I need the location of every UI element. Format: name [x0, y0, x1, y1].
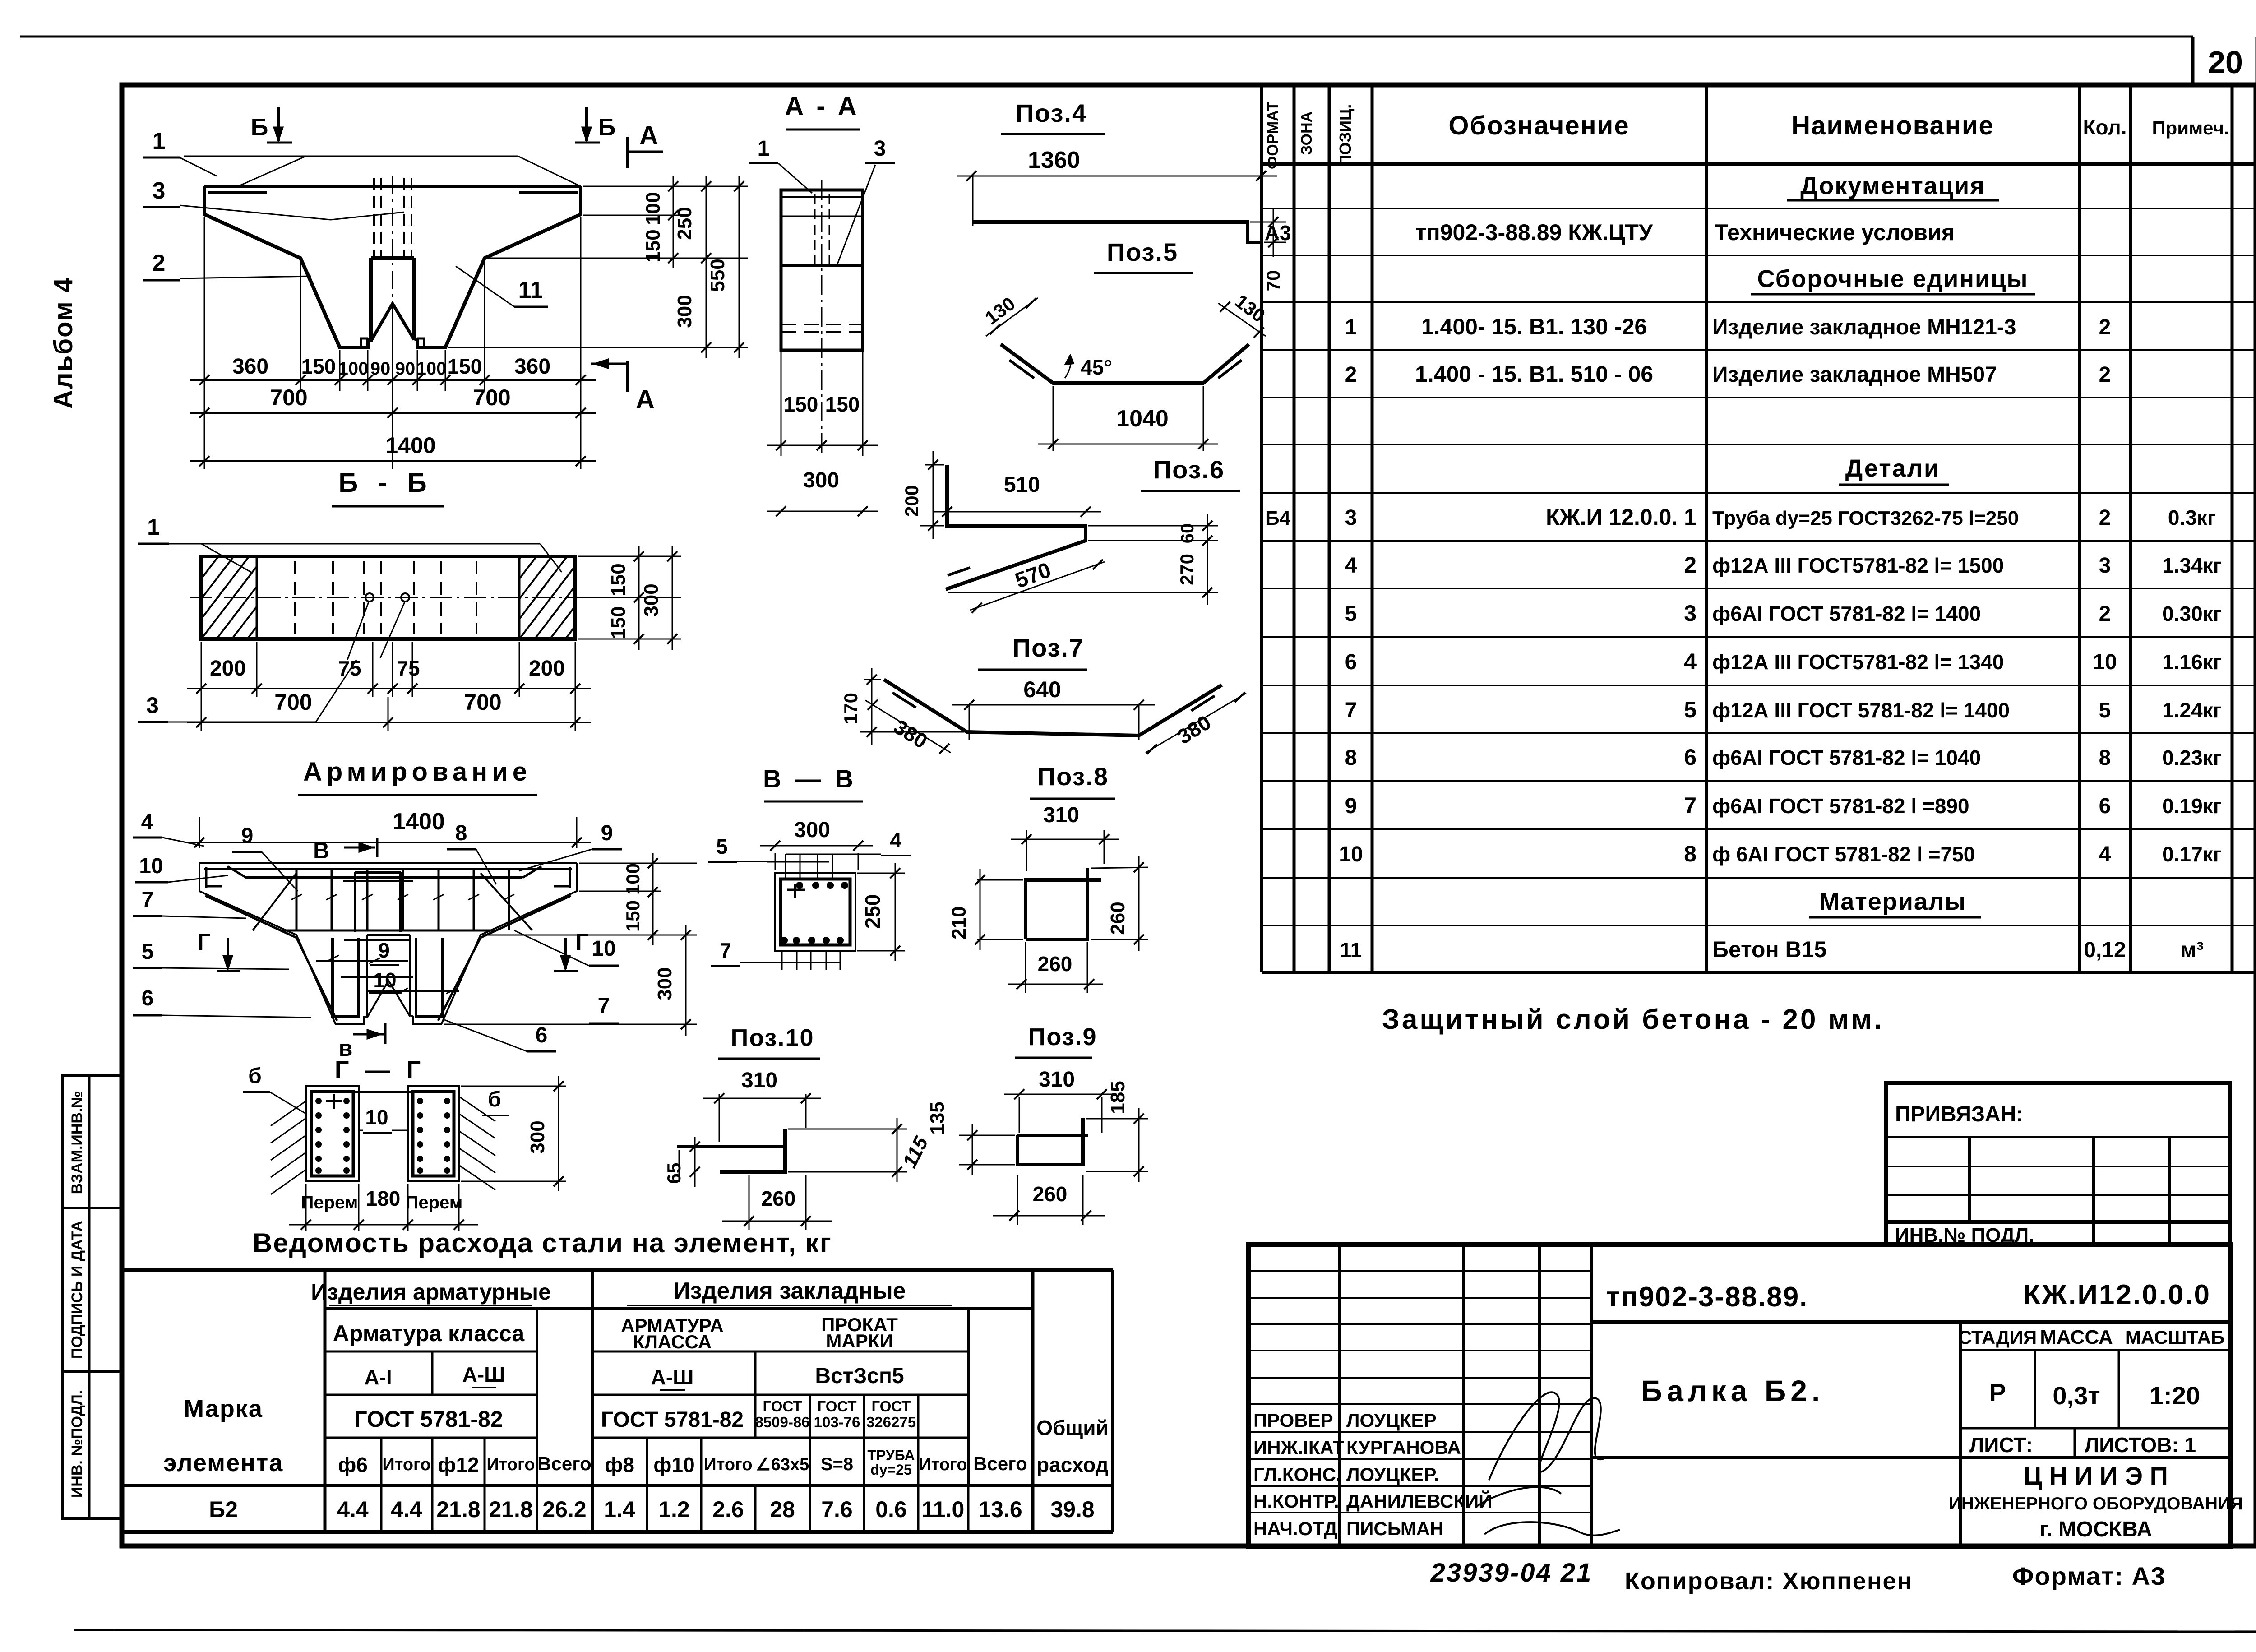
svg-text:100: 100 [622, 863, 643, 895]
privyazan block [1886, 1083, 2230, 1245]
section mark A bottom [626, 361, 629, 392]
svg-text:3: 3 [153, 178, 166, 204]
svg-text:Итого: Итого [704, 1455, 752, 1474]
dim row 700 700 [190, 385, 596, 418]
svg-text:Поз.6: Поз.6 [1153, 455, 1225, 484]
svg-text:550: 550 [707, 259, 729, 292]
svg-text:Формат: А3: Формат: А3 [2012, 1562, 2166, 1590]
svg-text:10: 10 [1339, 842, 1363, 866]
pos5 dim 1040 [1038, 386, 1218, 451]
pos4 bar [973, 222, 1262, 242]
svg-text:75: 75 [338, 657, 361, 680]
svg-text:360: 360 [232, 355, 268, 379]
svg-text:Г — Г: Г — Г [335, 1055, 425, 1084]
pos9 dim 135 [926, 1101, 1015, 1175]
pos7 dim 380 left [865, 700, 951, 754]
pos6 hook [948, 568, 970, 575]
svg-text:ГОСТ 5781-82: ГОСТ 5781-82 [601, 1408, 744, 1432]
svg-text:Сборочные единицы: Сборочные единицы [1757, 265, 2029, 292]
svg-text:326275: 326275 [866, 1414, 916, 1430]
pos8 dim 260 bottom [1008, 942, 1103, 993]
pos6 dim 510 [934, 473, 1101, 517]
pos7 bar [884, 680, 1222, 736]
svg-text:150: 150 [784, 393, 818, 416]
svg-text:МАРКИ: МАРКИ [826, 1330, 893, 1351]
G-G right hatch break lines [459, 1097, 495, 1190]
svg-text:А: А [636, 385, 655, 414]
svg-text:39.8: 39.8 [1050, 1497, 1094, 1522]
svg-text:5: 5 [716, 835, 728, 858]
svg-text:ЗОНА: ЗОНА [1298, 111, 1315, 155]
svg-text:ИНЖЕНЕРНОГО ОБОРУДОВАНИЯ: ИНЖЕНЕРНОГО ОБОРУДОВАНИЯ [1949, 1494, 2243, 1513]
svg-text:10: 10 [2093, 650, 2117, 674]
svg-text:310: 310 [1039, 1068, 1075, 1092]
svg-text:Итого: Итого [486, 1455, 535, 1474]
armirovanie middle bar [280, 930, 494, 932]
svg-text:расход: расход [1036, 1453, 1109, 1476]
svg-text:Поз.4: Поз.4 [1016, 99, 1087, 127]
svg-text:260: 260 [1033, 1182, 1068, 1206]
svg-text:9: 9 [1345, 794, 1357, 818]
svg-text:Всего: Всего [537, 1453, 592, 1474]
svg-text:А-Ш: А-Ш [651, 1365, 694, 1389]
svg-text:0.3кг: 0.3кг [2168, 506, 2216, 529]
armirovanie tongue rebar [343, 872, 413, 932]
svg-text:103-76: 103-76 [814, 1414, 860, 1430]
B-B dim 150 150 rot [607, 546, 644, 650]
pos6 dim 570 [970, 558, 1105, 613]
B-B dashed stirrups [295, 561, 476, 634]
svg-text:Альбом 4: Альбом 4 [49, 277, 78, 409]
vedomost values [209, 1497, 1095, 1522]
svg-text:Документация: Документация [1800, 172, 1985, 199]
beam hidden pipes dashed [374, 178, 411, 256]
svg-text:1.16кг: 1.16кг [2162, 650, 2222, 674]
svg-text:0.6: 0.6 [875, 1497, 907, 1522]
svg-text:1400: 1400 [393, 809, 445, 835]
pos5 angle 45 [1065, 355, 1071, 378]
V-V top bars [767, 854, 847, 880]
svg-text:∠63х5: ∠63х5 [756, 1455, 809, 1474]
title block signature labels [1253, 1410, 1492, 1539]
svg-text:10: 10 [365, 1106, 388, 1129]
svg-text:Б: Б [598, 114, 616, 141]
svg-text:700: 700 [274, 689, 312, 715]
svg-text:1.400 - 15. В1. 510 - 06: 1.400 - 15. В1. 510 - 06 [1415, 361, 1653, 387]
svg-text:26.2: 26.2 [542, 1497, 586, 1522]
svg-text:тп902-3-88.89.: тп902-3-88.89. [1606, 1282, 1808, 1313]
pos6 dim 270 [948, 541, 1218, 605]
svg-text:КЛАССА: КЛАССА [633, 1331, 712, 1352]
svg-text:2: 2 [2099, 363, 2111, 387]
armirovanie stirrups [291, 869, 514, 930]
armirovanie end bars pos10 [206, 867, 222, 888]
svg-text:28: 28 [770, 1497, 795, 1522]
svg-text:Г: Г [197, 929, 210, 955]
svg-text:А-Ш: А-Ш [462, 1363, 505, 1386]
svg-text:г. МОСКВА: г. МОСКВА [2039, 1518, 2152, 1541]
pos5 bar [1001, 344, 1249, 383]
beam centerline [392, 176, 393, 408]
svg-text:510: 510 [1004, 473, 1040, 497]
svg-text:Технические условия: Технические условия [1715, 220, 1955, 245]
B-B bottom extensions [201, 642, 575, 731]
svg-text:23939-04 21: 23939-04 21 [1430, 1558, 1593, 1587]
svg-text:СТАДИЯ: СТАДИЯ [1958, 1327, 2037, 1348]
svg-text:м³: м³ [2180, 938, 2204, 962]
B-B hatch right [458, 556, 721, 639]
sheet bottom edge line [74, 1630, 2256, 1632]
svg-text:Изделия арматурные: Изделия арматурные [311, 1279, 551, 1305]
svg-text:ПРОВЕР: ПРОВЕР [1253, 1410, 1333, 1431]
svg-text:700: 700 [473, 385, 510, 410]
svg-text:3: 3 [2099, 554, 2111, 578]
svg-text:А: А [639, 121, 658, 150]
sheet number box 20 [2193, 37, 2256, 86]
svg-text:ф6АI ГОСТ 5781-82 l= 1400: ф6АI ГОСТ 5781-82 l= 1400 [1712, 602, 1981, 625]
pos10 dim 260 [722, 1175, 832, 1230]
pos9 dim 260 [993, 1175, 1105, 1225]
svg-text:Р: Р [1989, 1378, 2006, 1407]
svg-text:260: 260 [1107, 902, 1129, 935]
pos8 dim 210 [948, 869, 1023, 950]
svg-text:2: 2 [2099, 506, 2111, 530]
svg-text:Детали: Детали [1845, 455, 1940, 482]
title block signature grid [1248, 1245, 1592, 1547]
svg-text:ф8: ф8 [605, 1453, 634, 1476]
svg-text:ИНЖ.IКАТ: ИНЖ.IКАТ [1253, 1437, 1345, 1458]
svg-text:210: 210 [948, 906, 970, 939]
B-B hatch left [140, 556, 402, 639]
svg-text:В: В [313, 838, 329, 863]
armirovanie foot frames [333, 938, 442, 1017]
svg-text:В — В: В — В [763, 764, 857, 793]
svg-text:2: 2 [1684, 552, 1697, 578]
svg-text:200: 200 [529, 657, 565, 680]
svg-text:ТРУБА: ТРУБА [867, 1447, 915, 1463]
B-B dim 700 700 [187, 689, 591, 727]
beam elevation outline [204, 186, 581, 347]
svg-text:ЛИСТ:: ЛИСТ: [1969, 1433, 2033, 1457]
svg-text:Наименование: Наименование [1791, 111, 1994, 140]
B-B dim 200 75 75 200 [187, 657, 591, 694]
dim 100 elevation [642, 176, 678, 226]
svg-text:1360: 1360 [1028, 147, 1080, 173]
svg-text:1.34кг: 1.34кг [2162, 554, 2222, 577]
svg-text:90: 90 [395, 359, 416, 379]
svg-text:Кол.: Кол. [2083, 116, 2127, 139]
svg-text:300: 300 [803, 468, 839, 492]
sheet top edge line [20, 36, 2193, 38]
svg-text:150: 150 [825, 393, 860, 416]
title block signatures squiggle [1489, 1392, 1606, 1480]
A-A rect [781, 190, 863, 350]
svg-text:11: 11 [1340, 938, 1362, 962]
svg-text:ГОСТ: ГОСТ [817, 1398, 856, 1415]
pos10 dim 310 [703, 1069, 821, 1142]
svg-text:ф12: ф12 [438, 1453, 479, 1476]
svg-text:1.24кг: 1.24кг [2162, 699, 2222, 722]
armirovanie foot bars [316, 955, 459, 994]
svg-text:170: 170 [840, 693, 861, 724]
svg-text:3: 3 [146, 693, 159, 718]
svg-text:НАЧ.ОТД.: НАЧ.ОТД. [1253, 1518, 1343, 1539]
svg-text:А3: А3 [1265, 221, 1291, 245]
svg-text:6: 6 [1345, 650, 1357, 674]
svg-text:7: 7 [720, 939, 731, 962]
svg-text:260: 260 [761, 1187, 796, 1210]
beam elevation slab thin outline [184, 156, 580, 187]
svg-text:Арматура класса: Арматура класса [333, 1321, 525, 1346]
svg-text:360: 360 [514, 355, 550, 379]
svg-text:Изделия закладные: Изделия закладные [673, 1278, 906, 1304]
svg-text:0.30кг: 0.30кг [2162, 602, 2222, 625]
armirovanie outline [199, 863, 577, 1024]
svg-text:Изделие закладное МН121-3: Изделие закладное МН121-3 [1712, 315, 2016, 339]
svg-text:300: 300 [794, 818, 830, 842]
svg-text:ГОСТ 5781-82: ГОСТ 5781-82 [354, 1407, 503, 1432]
svg-text:150: 150 [607, 563, 629, 596]
svg-text:7: 7 [1684, 793, 1697, 818]
V-V dots top [796, 882, 848, 889]
svg-text:Н.КОНТР.: Н.КОНТР. [1253, 1490, 1339, 1512]
svg-text:3: 3 [1684, 601, 1697, 626]
svg-text:10: 10 [139, 854, 163, 878]
svg-text:ЛОУЦКЕР.: ЛОУЦКЕР. [1346, 1464, 1439, 1485]
svg-text:21.8: 21.8 [436, 1497, 480, 1522]
svg-text:8509-86: 8509-86 [755, 1414, 809, 1430]
svg-text:Поз.8: Поз.8 [1037, 762, 1109, 791]
svg-text:Ведомость расхода стали: Ведомость расхода стали на элемент, кг [253, 1228, 832, 1258]
pos4 dim 1360 [957, 147, 1277, 246]
svg-text:9: 9 [241, 824, 254, 848]
pos4 dim 70 [1250, 208, 1286, 291]
svg-text:4: 4 [2099, 842, 2111, 866]
pos6 dim 60 [1088, 514, 1218, 553]
V-V rect outer [775, 873, 855, 951]
svg-text:Обозначение: Обозначение [1448, 111, 1629, 140]
B-B pipe circles [365, 593, 374, 602]
svg-text:ф6АI ГОСТ 5781-82 l= 1040: ф6АI ГОСТ 5781-82 l= 1040 [1712, 746, 1981, 769]
svg-text:ФОРМАТ: ФОРМАТ [1264, 102, 1281, 169]
svg-text:7: 7 [142, 888, 154, 912]
armirovanie top bar 4 [204, 868, 572, 870]
svg-text:ЛИСТОВ: 1: ЛИСТОВ: 1 [2085, 1433, 2196, 1457]
svg-text:185: 185 [1107, 1081, 1129, 1114]
svg-text:5: 5 [1684, 697, 1697, 722]
dim 300 elevation [674, 258, 711, 358]
svg-text:МАСШТАБ: МАСШТАБ [2125, 1327, 2224, 1348]
svg-text:ДАНИЛЕВСКИЙ: ДАНИЛЕВСКИЙ [1346, 1490, 1492, 1512]
svg-text:Примеч.: Примеч. [2152, 117, 2229, 139]
dim 150 elevation [642, 215, 678, 268]
svg-text:ф6АI ГОСТ 5781-82 l =890: ф6АI ГОСТ 5781-82 l =890 [1712, 794, 1969, 818]
svg-text:1.400- 15. В1. 130 -26: 1.400- 15. В1. 130 -26 [1421, 314, 1647, 339]
pos5 dim 130 right [1218, 291, 1269, 338]
armirovanie label bracket lines [341, 940, 413, 977]
V-V dim 250 rot [857, 863, 905, 961]
svg-text:640: 640 [1023, 677, 1061, 702]
G-G right dots [417, 1098, 450, 1174]
svg-text:3: 3 [1345, 506, 1357, 530]
svg-text:20: 20 [2208, 45, 2243, 80]
svg-text:Балка Б2.: Балка Б2. [1641, 1374, 1825, 1407]
svg-text:0,12: 0,12 [2084, 938, 2126, 962]
G-G left dots [315, 1098, 350, 1174]
svg-text:250: 250 [861, 894, 884, 929]
svg-text:9: 9 [601, 821, 613, 845]
armirovanie dim 1400 [185, 809, 591, 848]
svg-text:Б: Б [251, 114, 268, 141]
svg-text:ф12А III ГОСТ5781-82 l= 1500: ф12А III ГОСТ5781-82 l= 1500 [1712, 554, 2004, 577]
armirovanie dim 100 rot [622, 853, 658, 902]
svg-text:А - А: А - А [785, 92, 859, 121]
armirovanie dim 150 rot [622, 892, 658, 945]
svg-text:200: 200 [901, 485, 922, 517]
svg-text:б: б [248, 1064, 262, 1088]
beam elevation V notch [371, 304, 414, 341]
svg-text:300: 300 [640, 583, 662, 616]
section mark A top [626, 137, 629, 168]
pos7 dim 170 [840, 668, 964, 745]
svg-text:Г: Г [575, 929, 588, 955]
svg-text:100: 100 [642, 192, 664, 225]
svg-text:Поз.5: Поз.5 [1107, 238, 1178, 266]
svg-text:10: 10 [373, 968, 396, 992]
svg-text:100: 100 [338, 359, 369, 379]
A-A centerline [821, 180, 823, 456]
svg-text:1: 1 [147, 514, 160, 540]
svg-text:7: 7 [1345, 699, 1357, 722]
pos8 bar [1026, 868, 1101, 939]
svg-text:ГЛ.КОНС.: ГЛ.КОНС. [1253, 1464, 1341, 1485]
svg-text:ГОСТ: ГОСТ [763, 1398, 802, 1415]
V-V dim 300 [760, 818, 873, 870]
svg-text:тп902-3-88.89 КЖ.ЦТУ: тп902-3-88.89 КЖ.ЦТУ [1415, 220, 1653, 245]
dim 250 elevation [674, 176, 711, 268]
svg-text:ф12А III ГОСТ5781-82 l= 1340: ф12А III ГОСТ5781-82 l= 1340 [1712, 650, 2004, 674]
svg-text:2: 2 [2099, 602, 2111, 626]
G-G left hook cross [326, 1094, 342, 1109]
armirovanie haunch bars [205, 873, 571, 1021]
svg-text:60: 60 [1178, 523, 1197, 544]
svg-text:Поз.9: Поз.9 [1028, 1023, 1097, 1050]
pos6 bar [946, 465, 1086, 589]
beam embedded plate left [208, 191, 267, 194]
svg-text:Итого: Итого [919, 1455, 967, 1474]
svg-text:5: 5 [142, 940, 154, 964]
svg-text:ИНВ. №ПОДЛ.: ИНВ. №ПОДЛ. [69, 1390, 86, 1498]
svg-text:65: 65 [663, 1163, 684, 1184]
B-B pipes leader [347, 602, 369, 660]
svg-text:А-I: А-I [364, 1365, 392, 1389]
svg-text:1:20: 1:20 [2150, 1381, 2200, 1410]
svg-text:2: 2 [1345, 363, 1357, 387]
svg-text:300: 300 [674, 295, 696, 328]
svg-text:Материалы: Материалы [1819, 888, 1967, 915]
svg-text:ПОДПИСЬ И ДАТА: ПОДПИСЬ И ДАТА [69, 1221, 86, 1359]
svg-text:150: 150 [622, 900, 643, 932]
svg-text:4: 4 [1684, 649, 1697, 674]
dim row 1400 [190, 433, 596, 466]
svg-text:21.8: 21.8 [489, 1497, 532, 1522]
B-B dim 300 rot [640, 546, 677, 650]
svg-text:7: 7 [598, 994, 610, 1018]
title block outer [1248, 1245, 2231, 1547]
svg-text:Итого: Итого [382, 1455, 430, 1474]
svg-text:310: 310 [741, 1069, 777, 1092]
svg-text:4.4: 4.4 [391, 1497, 422, 1522]
svg-text:ВЗАМ.ИНВ.№: ВЗАМ.ИНВ.№ [69, 1091, 86, 1194]
svg-text:ПРИВЯЗАН:: ПРИВЯЗАН: [1895, 1102, 2023, 1126]
svg-text:3: 3 [874, 137, 886, 161]
svg-text:10: 10 [592, 937, 615, 961]
svg-text:ЛОУЦКЕР: ЛОУЦКЕР [1346, 1410, 1437, 1431]
svg-text:200: 200 [210, 657, 246, 680]
pos7 dim 640 [952, 677, 1155, 740]
svg-text:8: 8 [1345, 746, 1357, 770]
svg-text:Изделие закладное МН507: Изделие закладное МН507 [1712, 363, 1997, 387]
pos9 dim 185 [1086, 1081, 1148, 1182]
svg-text:ф 6АI ГОСТ 5781-82 l =750: ф 6АI ГОСТ 5781-82 l =750 [1712, 842, 1975, 866]
elevation bottom extension lines [204, 217, 581, 469]
svg-text:ПОЗИЦ.: ПОЗИЦ. [1336, 104, 1355, 167]
svg-text:Всего: Всего [973, 1453, 1027, 1474]
armirovanie section mark G right [564, 938, 567, 969]
G-G left stirrup [311, 1092, 353, 1176]
svg-text:1.2: 1.2 [658, 1497, 690, 1522]
V-V stirrup inner [781, 879, 850, 945]
svg-text:8: 8 [1684, 841, 1697, 866]
A-A dim 150 150 [767, 352, 878, 456]
spec table grid [1262, 85, 2254, 972]
svg-text:4.4: 4.4 [337, 1497, 369, 1522]
svg-text:4: 4 [141, 810, 153, 834]
pos5 dim 130 left [981, 293, 1038, 336]
svg-text:5: 5 [2099, 699, 2111, 722]
svg-text:150: 150 [448, 355, 482, 378]
svg-text:Ц Н И И Э П: Ц Н И И Э П [2024, 1462, 2168, 1490]
G-G right rect outer [408, 1086, 459, 1181]
svg-text:КЖ.И12.0.0.0: КЖ.И12.0.0.0 [2023, 1279, 2211, 1310]
svg-text:Б4: Б4 [1265, 507, 1291, 529]
armirovanie dim 300 rot [654, 925, 691, 1036]
pos10 bar [677, 1129, 785, 1172]
svg-text:11.0: 11.0 [922, 1497, 965, 1522]
svg-text:0,3т: 0,3т [2053, 1381, 2100, 1410]
svg-text:8: 8 [2099, 746, 2111, 770]
pos10 dim 115 [788, 1118, 933, 1182]
svg-text:Армирование: Армирование [303, 757, 532, 787]
svg-text:0.17кг: 0.17кг [2162, 842, 2222, 866]
svg-text:45°: 45° [1081, 356, 1112, 379]
section mark B right [585, 107, 588, 141]
svg-text:260: 260 [1038, 952, 1073, 976]
G-G right stirrup [413, 1092, 454, 1176]
B-B centerline horizontal [190, 597, 587, 598]
svg-text:ВстЗсп5: ВстЗсп5 [815, 1364, 904, 1388]
svg-text:150: 150 [607, 606, 629, 639]
svg-text:700: 700 [270, 385, 307, 410]
elevation extension lines right [448, 186, 748, 347]
svg-text:310: 310 [1043, 803, 1079, 827]
svg-text:90: 90 [370, 359, 391, 379]
G-G left rect outer [306, 1086, 359, 1181]
svg-text:S=8: S=8 [821, 1454, 853, 1474]
svg-text:ПИСЬМАН: ПИСЬМАН [1346, 1518, 1444, 1539]
B-B right extensions [578, 556, 681, 639]
svg-text:300: 300 [654, 967, 676, 1000]
